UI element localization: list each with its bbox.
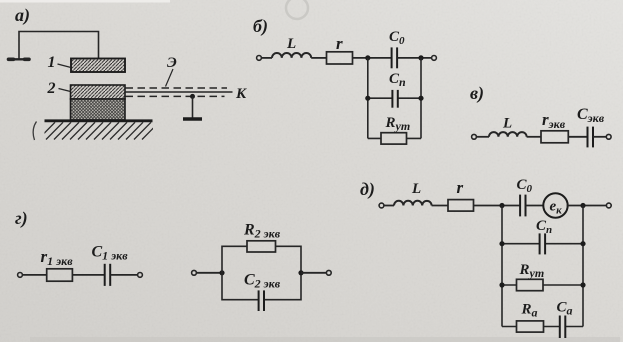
inductor L (b) xyxy=(272,53,311,58)
support wire xyxy=(192,96,194,117)
resistor r_ekv xyxy=(541,131,568,143)
terminal d-right xyxy=(606,203,611,208)
svg-text:r: r xyxy=(457,178,464,197)
wire xyxy=(476,136,489,138)
wire xyxy=(261,57,272,59)
terminal v-right xyxy=(606,134,611,139)
wire xyxy=(110,274,137,276)
resistor R2ekv xyxy=(247,241,276,252)
inductor L (v) xyxy=(489,132,527,137)
wire xyxy=(353,57,392,59)
wire xyxy=(432,205,448,207)
svg-text:1: 1 xyxy=(48,54,56,71)
capacitor C0 (d) xyxy=(520,195,525,217)
svg-text:а): а) xyxy=(15,5,30,26)
crystal body of block 2 xyxy=(71,99,126,120)
right vertical wire (d) xyxy=(582,206,584,327)
lower dashed electrode lead xyxy=(126,95,225,97)
svg-text:L: L xyxy=(502,116,512,132)
left vertical wire (d) xyxy=(501,206,503,327)
curve mark left of base xyxy=(33,122,36,141)
wire xyxy=(474,205,521,207)
electrode strip of block 2 xyxy=(71,85,126,99)
resistor Rut (d) xyxy=(517,279,544,290)
bottom branch wire (d) xyxy=(502,326,583,328)
node dots Rut branch (d) xyxy=(499,282,504,287)
wire xyxy=(567,205,607,207)
inductor L (d) xyxy=(394,201,432,206)
wire xyxy=(397,57,431,59)
Rut branch wire (d) xyxy=(502,284,583,286)
leader line for 2 xyxy=(59,89,71,92)
node dot g2-left xyxy=(219,270,224,275)
paper smudge top center xyxy=(286,0,308,19)
support bar xyxy=(183,117,202,120)
capacitor C_ekv xyxy=(588,127,594,148)
resistor Ra (d) xyxy=(517,321,544,332)
terminal g1-left xyxy=(18,273,23,278)
wire xyxy=(384,205,394,207)
terminal d-left xyxy=(379,203,384,208)
wire xyxy=(311,57,326,59)
node dot g2-right xyxy=(298,270,303,275)
base hatching xyxy=(38,122,159,139)
electrode block 1 xyxy=(71,59,125,73)
terminal g2-right xyxy=(326,270,331,275)
solid lead to K xyxy=(126,91,233,93)
svg-text:r: r xyxy=(336,34,343,53)
wire xyxy=(72,274,104,276)
junction dot on lead xyxy=(190,94,195,99)
node dot d-right xyxy=(580,203,585,208)
terminal b-left xyxy=(257,56,262,61)
right vertical wire (b) xyxy=(420,58,422,138)
capacitor Ca (d) xyxy=(560,316,566,339)
wire xyxy=(526,205,544,207)
terminal g2-left xyxy=(192,270,197,275)
capacitor C1ekv xyxy=(105,264,111,286)
Cp branch wire (b) xyxy=(368,97,421,99)
node A dot (b) xyxy=(365,55,370,60)
terminal b-right xyxy=(432,56,437,61)
wire xyxy=(301,272,327,274)
leader line for Э xyxy=(166,69,174,87)
base line xyxy=(45,119,153,122)
svg-text:2: 2 xyxy=(47,80,56,97)
svg-text:L: L xyxy=(286,36,296,52)
terminal g1-right xyxy=(138,273,143,278)
upper dashed electrode lead xyxy=(126,87,228,89)
svg-text:б): б) xyxy=(253,16,268,37)
capacitor Cp (b) xyxy=(392,90,397,108)
svg-text:д): д) xyxy=(360,179,375,200)
node dots Cp branch (d) xyxy=(499,241,504,246)
left vertical wire (b) xyxy=(367,58,369,138)
parallel loop wires (g2) xyxy=(222,246,247,272)
wire xyxy=(527,136,541,138)
svg-text:в): в) xyxy=(470,83,484,104)
Rut branch bottom wire (b) xyxy=(368,137,421,139)
wire xyxy=(568,136,587,138)
capacitor Cp (d) xyxy=(540,233,546,254)
svg-text:К: К xyxy=(235,86,247,102)
capacitor C0 (b) xyxy=(392,47,398,68)
resistor r (b) xyxy=(327,52,353,64)
svg-text:г): г) xyxy=(15,208,28,229)
resistor r1ekv xyxy=(47,269,73,281)
source e_k circle xyxy=(543,193,567,217)
node B dot (b) xyxy=(418,55,423,60)
capacitor C2ekv xyxy=(259,290,264,311)
node dots Cp branch (b) xyxy=(365,96,370,101)
ground terminal of part a xyxy=(9,58,30,60)
Cp branch wire (d) xyxy=(502,243,583,245)
wire xyxy=(22,274,46,276)
node dot d-left xyxy=(499,203,504,208)
wire from ground to electrode 1 xyxy=(19,32,99,59)
resistor Rut (b) xyxy=(381,133,407,144)
resistor r (d) xyxy=(448,200,474,212)
svg-text:L: L xyxy=(411,181,421,197)
leader line for 1 xyxy=(58,64,72,68)
wire xyxy=(593,136,606,138)
terminal v-left xyxy=(472,134,477,139)
wire xyxy=(196,272,222,274)
svg-text:Э: Э xyxy=(167,55,177,71)
